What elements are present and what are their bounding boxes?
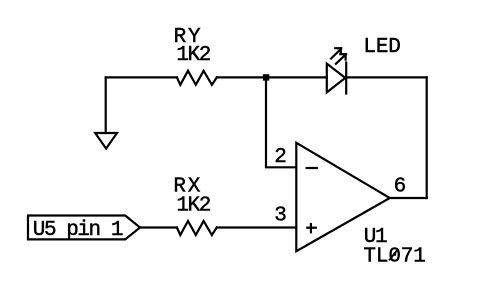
svg-text:1K2: 1K2 — [176, 194, 210, 217]
svg-text:2: 2 — [274, 146, 286, 169]
svg-text:6: 6 — [394, 176, 406, 199]
svg-text:3: 3 — [274, 205, 286, 228]
svg-text:LED: LED — [363, 36, 400, 59]
svg-text:U5 pin 1: U5 pin 1 — [33, 219, 123, 242]
svg-text:1K2: 1K2 — [176, 44, 210, 67]
svg-text:TL071: TL071 — [363, 246, 425, 269]
